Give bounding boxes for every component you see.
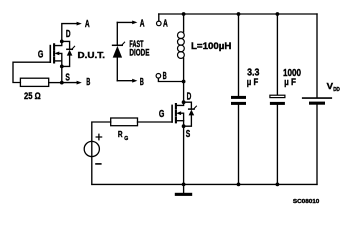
- terminal A circle: [157, 21, 162, 26]
- drain junction dot: [182, 100, 186, 104]
- svg-text:D.U.T.: D.U.T.: [78, 50, 106, 60]
- capacitor C2 top wire: [276, 14, 278, 95]
- battery VDD top wire: [316, 14, 318, 97]
- wire Q2 source to bottom rail: [183, 126, 185, 184]
- source junction dot: [182, 124, 186, 128]
- bottom rail: [92, 183, 317, 185]
- wire source of D.U.T. down to node B: [62, 66, 77, 82]
- minus sign: [96, 163, 101, 165]
- wire RG to Q2 gate: [138, 121, 173, 123]
- battery VDD bottom wire: [316, 105, 318, 185]
- source lead: [55, 60, 62, 62]
- terminal B circle: [156, 74, 161, 79]
- drain lead: [176, 102, 183, 105]
- gate wire of D.U.T. to resistor: [13, 62, 50, 82]
- junction dot top rail / C1: [237, 12, 241, 16]
- svg-text:25 Ω: 25 Ω: [24, 91, 41, 102]
- svg-text:D: D: [187, 92, 192, 103]
- body diode of D.U.T.: [62, 41, 75, 66]
- svg-text:S: S: [65, 72, 70, 83]
- arrowhead to node B (D.U.T.): [77, 81, 82, 85]
- wire source bottom to bottom rail: [91, 157, 93, 185]
- arrowhead to node A (D.U.T.): [77, 22, 82, 26]
- resistor RG: [111, 118, 138, 126]
- svg-text:D: D: [66, 29, 71, 40]
- drain lead: [55, 41, 62, 45]
- svg-text:DD: DD: [333, 87, 340, 93]
- pulse generator internal bar: [91, 141, 93, 156]
- capacitor C2 (1000 uF) plates: [270, 95, 285, 97]
- capacitor C1 bottom wire: [238, 105, 240, 184]
- svg-text:A: A: [85, 19, 90, 30]
- svg-text:B: B: [140, 77, 144, 88]
- inductor L wire bottom: [183, 58, 185, 82]
- body diode of Q2: [184, 102, 197, 126]
- plus sign: [96, 134, 101, 139]
- wire fast diode to arrow B: [117, 80, 132, 82]
- junction dot bottom rail / Q2 source: [182, 183, 186, 187]
- svg-text:µ F: µ F: [284, 77, 296, 88]
- channel segments: [53, 44, 55, 62]
- resistor 25 ohm: [20, 78, 48, 86]
- junction dot top rail / C2: [276, 12, 280, 16]
- fast diode branch vertical wire: [116, 22, 118, 80]
- arrowhead to node A (fast diode): [132, 21, 137, 25]
- fast diode symbol: [113, 42, 125, 57]
- top rail: [159, 13, 317, 15]
- junction dot node B / inductor: [182, 80, 186, 84]
- wire drain of D.U.T. to arrow A: [62, 24, 77, 42]
- gate bar: [49, 46, 51, 63]
- source junction dot: [60, 65, 64, 69]
- junction dot source/resistor/B: [60, 81, 64, 85]
- ground: [175, 193, 192, 196]
- capacitor C1 top wire: [238, 14, 240, 96]
- transistor Q2 (n-channel MOSFET): [172, 100, 185, 128]
- wire resistor to source node: [49, 82, 62, 84]
- terminal A stem to top rail: [158, 14, 160, 21]
- terminal B wire to inductor node: [158, 78, 183, 81]
- channel segments: [175, 104, 177, 122]
- gate bar: [171, 105, 173, 122]
- battery VDD short thick plate: [309, 102, 325, 105]
- svg-text:L=100µH: L=100µH: [191, 41, 232, 52]
- wire source top to RG: [92, 122, 111, 141]
- svg-text:A: A: [163, 19, 168, 30]
- junction dot top rail / inductor: [182, 12, 186, 16]
- body lead with arrow: [58, 53, 62, 66]
- svg-text:DIODE: DIODE: [129, 48, 149, 58]
- svg-text:SC08010: SC08010: [293, 199, 319, 205]
- inductor L coil: [178, 32, 185, 59]
- ground stem: [183, 184, 185, 192]
- capacitor C2 bottom wire: [276, 105, 278, 184]
- capacitor C1 (3.3 uF) plates: [231, 96, 246, 99]
- wire inductor node to Q2 drain: [183, 82, 185, 103]
- arrowhead to node B (fast diode): [132, 79, 137, 83]
- svg-text:R: R: [118, 129, 123, 139]
- svg-text:G: G: [38, 50, 44, 61]
- svg-text:G: G: [159, 109, 165, 120]
- drain junction dot: [60, 40, 64, 44]
- body lead with arrow: [180, 113, 184, 126]
- svg-text:G: G: [124, 136, 128, 142]
- pulse generator source circle: [84, 141, 99, 156]
- battery VDD long plate: [303, 97, 332, 99]
- inductor L wire top: [183, 14, 185, 32]
- source lead: [176, 120, 183, 122]
- junction dot bottom rail / C2: [276, 183, 280, 187]
- junction dot bottom rail / C1: [237, 183, 241, 187]
- transistor D.U.T. (n-channel MOSFET): [50, 40, 63, 69]
- svg-text:B: B: [163, 71, 167, 82]
- svg-text:A: A: [140, 18, 145, 29]
- svg-text:µ F: µ F: [247, 77, 259, 88]
- svg-text:B: B: [86, 77, 90, 88]
- wire fast diode to arrow A: [117, 21, 132, 23]
- svg-text:S: S: [186, 129, 191, 140]
